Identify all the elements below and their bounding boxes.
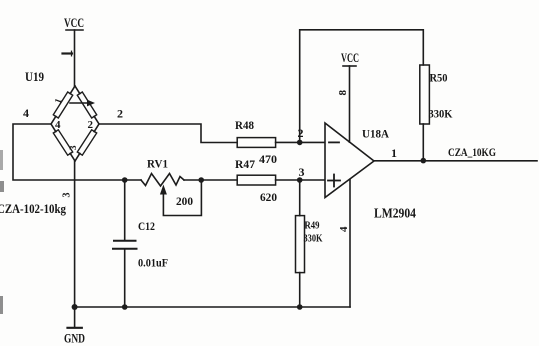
capacitor C12 [113,180,137,307]
op-amp non-inverting sign [328,175,340,187]
wire R47 to non-inverting input [276,179,325,181]
strain arrow inside bridge [70,100,95,107]
wire R48 to inverting input [276,141,325,143]
resistor R49 [296,180,305,307]
node ground rail / C12 [122,304,128,310]
output wire [374,160,537,162]
svg-text:GND: GND [64,332,85,346]
potentiometer RV1 body [141,174,184,187]
RV1 wiper arrow and loop [160,180,202,216]
node output junction [421,158,427,164]
resistor R48 [237,138,275,148]
svg-text:1: 1 [52,97,63,105]
svg-text:R50: R50 [430,71,448,85]
svg-text:C12: C12 [138,219,155,233]
resistor R47 [237,175,275,185]
ground symbol [68,307,82,328]
resistor R50 [420,65,430,124]
svg-text:R47: R47 [235,157,255,171]
svg-text:R49: R49 [305,220,320,232]
node RV1 right junction [198,177,204,183]
node RV1 left / C12 top [122,177,128,183]
op-amp pin 4 wire to ground rail [349,179,351,307]
svg-text:1: 1 [391,146,397,160]
svg-text:VCC: VCC [341,51,359,65]
svg-text:620: 620 [260,190,277,204]
svg-text:CZA_10KG: CZA_10KG [448,147,496,159]
svg-text:3: 3 [62,193,73,198]
svg-text:RV1: RV1 [147,157,168,171]
svg-text:4: 4 [55,119,61,131]
svg-text:3: 3 [68,145,78,150]
svg-text:U18A: U18A [362,127,389,141]
svg-text:330K: 330K [429,107,454,121]
svg-text:U19: U19 [25,70,44,84]
svg-text:CZA-102-10kg: CZA-102-10kg [0,202,67,216]
node ground rail / bridge pin 3 [72,304,78,310]
op-amp U18A triangle [325,123,374,198]
sensor bridge U19 [51,86,99,161]
svg-text:3: 3 [299,165,305,179]
wire RV1 to R47 [184,179,237,181]
svg-text:2: 2 [88,119,94,131]
feedback wire pin2 up over to R50 [300,30,424,143]
svg-text:4: 4 [23,106,29,120]
power VCC (bridge supply) [66,30,83,86]
wire R50 bottom to output [422,124,424,161]
svg-text:0.01uF: 0.01uF [138,256,168,270]
power VCC (op-amp pin 8) [343,66,356,142]
svg-text:2: 2 [117,107,123,121]
svg-text:8: 8 [337,90,349,96]
svg-text:330K: 330K [304,233,323,245]
wire bridge pin 2 over to R48 [99,124,237,143]
op-amp inverting sign [329,141,339,143]
ground rail wire [75,306,350,308]
svg-text:R48: R48 [235,118,254,132]
svg-text:LM2904: LM2904 [374,206,416,221]
node non-inverting input (pin 3) [297,177,303,183]
svg-text:200: 200 [176,194,193,208]
svg-text:VCC: VCC [64,15,84,30]
wire bridge pin 3 down to ground rail [74,161,76,307]
node inverting input (pin 2) [297,140,303,146]
svg-text:470: 470 [259,152,277,166]
node ground rail / R49 [297,304,303,310]
svg-text:4: 4 [338,226,350,232]
wire bridge pin 4 loop to signal line [13,124,141,180]
pin 1 label (rotated) on VCC wire [63,51,73,56]
